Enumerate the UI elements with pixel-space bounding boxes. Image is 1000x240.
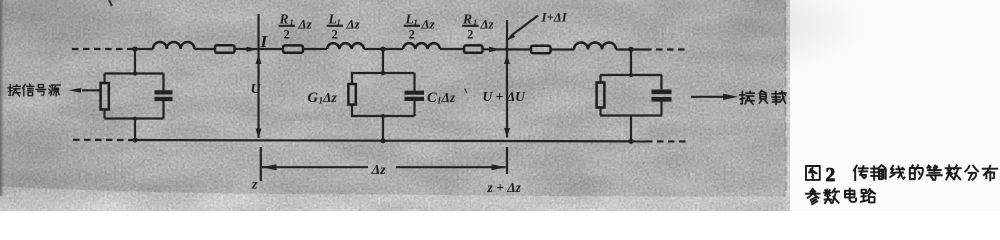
svg-text:z: z xyxy=(251,178,258,193)
svg-text:Δz: Δz xyxy=(322,90,337,105)
svg-text:U: U xyxy=(251,82,262,97)
svg-text:C: C xyxy=(427,90,437,106)
svg-text:L: L xyxy=(405,12,414,27)
svg-text:U + ΔU: U + ΔU xyxy=(483,89,527,104)
svg-text:I+ΔI: I+ΔI xyxy=(541,11,568,25)
svg-text:2: 2 xyxy=(409,28,415,42)
svg-text:Δz: Δz xyxy=(421,17,436,32)
svg-text:R: R xyxy=(279,12,289,27)
svg-text:2: 2 xyxy=(284,28,290,42)
svg-text:R: R xyxy=(462,12,472,27)
svg-text:Δz: Δz xyxy=(441,90,456,105)
svg-text:Δz: Δz xyxy=(298,17,313,32)
svg-text:2: 2 xyxy=(826,165,836,186)
svg-text:L: L xyxy=(328,12,337,27)
svg-text:2: 2 xyxy=(467,28,473,42)
svg-text:2: 2 xyxy=(332,28,338,42)
svg-text:G: G xyxy=(308,90,319,106)
svg-text:Δz: Δz xyxy=(371,163,387,178)
svg-text:Δz: Δz xyxy=(480,17,495,32)
svg-text:z + Δz: z + Δz xyxy=(487,180,522,195)
svg-text:Δz: Δz xyxy=(346,17,361,32)
